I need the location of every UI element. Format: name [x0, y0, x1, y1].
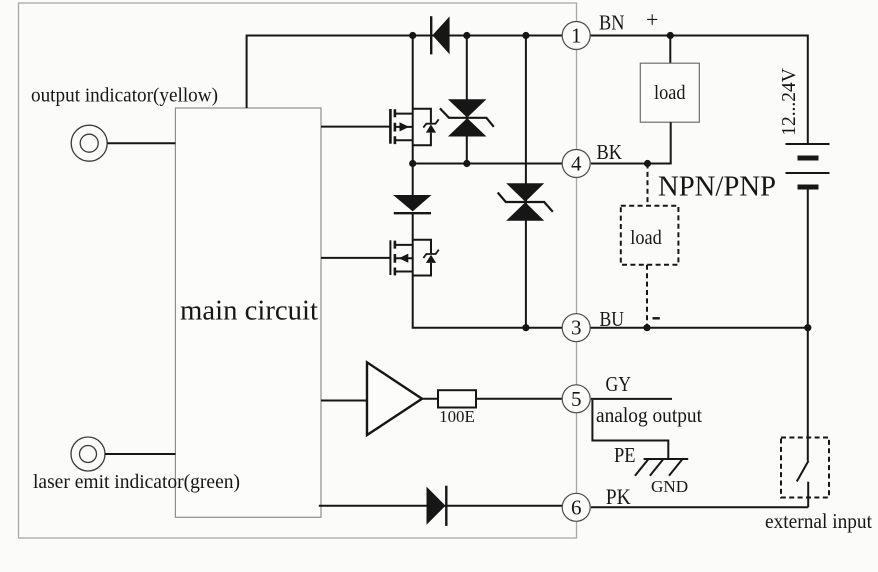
- vertical leg x=466.8: BN to BK through TVS Z1: [466, 36, 468, 164]
- svg-text:GND: GND: [651, 477, 688, 496]
- Q2 body zener loop: [413, 240, 431, 276]
- drain stub: [395, 113, 413, 115]
- TVS diode Z1: [440, 99, 494, 136]
- wire LED2 to main circuit: [105, 453, 175, 455]
- vertical leg x=525.9: BN to BU through TVS Z2: [525, 36, 527, 328]
- node BN-Q1: [409, 32, 416, 39]
- node BU-TVS2: [522, 324, 529, 331]
- node BK-TVS: [463, 160, 470, 167]
- drain stub: [395, 244, 413, 246]
- node BU-dashed load: [643, 324, 650, 331]
- terminal 6: [562, 493, 590, 521]
- external input dashed box: [781, 438, 829, 498]
- terminal 5: [562, 385, 590, 413]
- output indicator LED: [71, 125, 107, 161]
- svg-text:NPN/PNP: NPN/PNP: [658, 172, 776, 203]
- wire: load bottom to BK line: [591, 122, 671, 163]
- node BN-TVS2: [522, 32, 529, 39]
- battery 12..24V: [786, 144, 830, 187]
- svg-text:BU: BU: [600, 307, 625, 331]
- svg-text:+: +: [646, 7, 658, 32]
- svg-text:output indicator(yellow): output indicator(yellow): [31, 85, 218, 107]
- svg-text:5: 5: [571, 387, 582, 411]
- svg-text:load: load: [654, 83, 686, 104]
- svg-text:12...24V: 12...24V: [778, 68, 800, 136]
- gate bar: [389, 109, 392, 144]
- wire main circuit to diode D4 and terminal 6: [319, 505, 562, 507]
- svg-text:GY: GY: [606, 372, 632, 396]
- vertical leg x=412.7 top: BN to BK through MOSFET Q1: [412, 36, 414, 164]
- svg-text:main circuit: main circuit: [180, 296, 318, 327]
- svg-text:analog output: analog output: [596, 403, 702, 427]
- node BN-TVS1: [463, 32, 470, 39]
- diode D1 on BN rail: [431, 16, 449, 54]
- gate lead: [321, 126, 390, 128]
- laser emit indicator LED: [71, 437, 105, 471]
- gate bar: [389, 240, 391, 275]
- wire amplifier to resistor: [421, 398, 438, 400]
- svg-text:PE: PE: [614, 443, 636, 467]
- svg-text:1: 1: [571, 24, 582, 48]
- node on BN at load drop: [667, 32, 674, 39]
- Q1 body arrow (points right): [400, 122, 410, 131]
- node BK-left: [409, 160, 416, 167]
- amplifier A1: [367, 362, 422, 435]
- source stub: [395, 139, 413, 141]
- gate lead: [321, 257, 390, 259]
- BK line from MOSFET leg to terminal 4: [413, 163, 562, 165]
- wire LED1 to main circuit: [107, 142, 175, 144]
- diode D3 between BK and Q2: [412, 164, 414, 196]
- svg-text:BN: BN: [599, 11, 625, 35]
- diode D4: [427, 486, 447, 526]
- PK wire terminal 6 to external input: [591, 506, 808, 508]
- channel segments: [394, 109, 397, 144]
- switch blade: [797, 461, 809, 482]
- minus sign: [653, 317, 660, 319]
- GY analog output wire: [591, 398, 672, 400]
- MOSFET Q1 (high side): [321, 109, 413, 144]
- wire main circuit to amplifier: [321, 400, 367, 402]
- battery rail down to external input: [807, 190, 809, 461]
- switch bottom contact to PK line: [807, 482, 809, 508]
- svg-text:PK: PK: [606, 484, 631, 509]
- wire: drop to load: [669, 36, 671, 64]
- svg-text:3: 3: [571, 316, 582, 340]
- Q1 body zener diode: [423, 119, 438, 132]
- GND chassis symbol: [635, 459, 688, 476]
- PE wire to GND: [592, 400, 668, 459]
- source stub: [395, 271, 413, 273]
- resistor 100E: [438, 390, 476, 407]
- wire: main circuit top to BN rail: [247, 36, 562, 109]
- svg-text:6: 6: [571, 495, 582, 519]
- dashed wire BK node to dashed load: [647, 164, 649, 206]
- wire: BN rail right of terminal 1 to battery: [590, 36, 808, 145]
- sensor outline frame: [19, 3, 577, 538]
- load box (solid): [640, 63, 699, 122]
- svg-text:4: 4: [571, 152, 582, 176]
- wire resistor to terminal 5: [476, 398, 562, 400]
- terminal 3: [562, 314, 590, 342]
- svg-text:load: load: [630, 228, 662, 249]
- svg-text:100E: 100E: [439, 407, 475, 426]
- node BK-load: [644, 160, 651, 167]
- dashed wire dashed load to BU node: [646, 265, 648, 328]
- MOSFET Q2 (low side): [321, 240, 413, 275]
- BU line right of terminal 3: [590, 327, 808, 329]
- body stub: [395, 257, 413, 259]
- node BU-battery rail: [804, 324, 811, 331]
- TVS diode Z2: [498, 183, 553, 220]
- Q2 body arrow (points left): [399, 254, 409, 263]
- svg-text:BK: BK: [597, 140, 623, 164]
- body stub: [395, 126, 413, 128]
- terminal 4: [562, 150, 590, 178]
- dashed load box: [621, 206, 679, 265]
- Q1 body zener loop: [413, 109, 431, 146]
- terminal 1: [562, 22, 590, 50]
- wire: Q2 source down to BU line: [413, 276, 562, 328]
- channel segments: [394, 241, 397, 276]
- main circuit box: [175, 108, 321, 517]
- svg-text:laser emit indicator(green): laser emit indicator(green): [33, 471, 240, 493]
- Q2 body zener diode: [423, 250, 438, 263]
- svg-text:external input: external input: [765, 509, 872, 533]
